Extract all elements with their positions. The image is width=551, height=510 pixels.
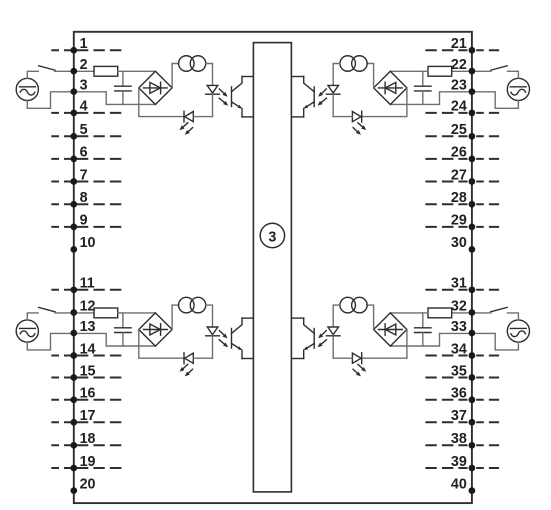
svg-text:7: 7 — [80, 167, 88, 183]
ch2 bridge rectifier — [374, 71, 407, 104]
pin 5 junction dot — [70, 133, 77, 140]
input channel block top-left — [16, 56, 253, 135]
svg-text:14: 14 — [80, 341, 96, 357]
ch1 AC source — [16, 78, 38, 100]
pin 18 junction dot — [70, 442, 77, 449]
pin 24 junction dot — [469, 110, 476, 117]
pin 26 junction dot — [469, 156, 476, 163]
pin 7 junction dot — [70, 178, 77, 185]
pin 37 junction dot — [469, 419, 476, 426]
ch3 wire switch to pin — [55, 312, 74, 314]
ch2 current source — [340, 56, 367, 72]
svg-text:22: 22 — [451, 57, 467, 73]
ch2 wire bridge to current source — [367, 64, 374, 88]
pin 2 junction dot — [70, 68, 77, 75]
svg-text:5: 5 — [80, 122, 88, 138]
pin 25 dashed line — [425, 135, 499, 137]
pin 6 dashed line — [51, 158, 121, 160]
ch2 wire resistor to bridge — [390, 70, 428, 72]
ch1 resistor — [94, 66, 118, 76]
pin 12 junction dot — [70, 309, 77, 316]
ch1 wire source to lower pin — [27, 92, 74, 109]
ch3 emitter wire — [242, 358, 254, 360]
pin 16 dashed line — [51, 399, 121, 401]
ch4 wire source to switch — [508, 313, 519, 320]
svg-text:4: 4 — [80, 99, 88, 115]
ch1 wire source to switch — [27, 71, 38, 78]
pin 18 dashed line — [51, 444, 121, 446]
pin 35 dashed line — [425, 377, 499, 379]
pin 39 junction dot — [469, 465, 476, 472]
pin 13 junction dot — [70, 330, 77, 337]
ch1 indicator LED — [184, 111, 213, 122]
ch4 current source — [340, 297, 367, 313]
pin 19 junction dot — [70, 465, 77, 472]
ch1 emitter wire — [242, 116, 254, 118]
ch4 resistor — [428, 308, 452, 318]
pin 7 dashed line — [51, 181, 121, 183]
ch1 phototransistor — [232, 77, 243, 117]
pin 3 junction dot — [70, 88, 77, 95]
svg-text:11: 11 — [80, 276, 95, 292]
ch3 wire source to lower pin — [27, 333, 74, 350]
ch4 wire bridge to current source — [367, 305, 374, 329]
svg-text:33: 33 — [451, 319, 467, 335]
pin 29 junction dot — [469, 224, 476, 231]
ch2 AC source — [507, 78, 529, 100]
ch2 capacitor — [415, 71, 431, 104]
svg-text:40: 40 — [451, 476, 467, 492]
ch2 wire lower pin to bridge — [390, 92, 472, 105]
pin 26 dashed line — [425, 158, 499, 160]
svg-text:19: 19 — [80, 454, 96, 470]
svg-text:35: 35 — [451, 363, 467, 379]
ch3 wire current source to LED — [206, 305, 213, 327]
svg-text:20: 20 — [80, 476, 96, 492]
pin 4 dashed line — [51, 112, 121, 114]
input channel block top-right — [292, 56, 529, 135]
ch4 AC source — [507, 320, 529, 342]
ch1 current source — [179, 56, 206, 72]
ch4 light arrows — [318, 331, 327, 348]
pin 31 junction dot — [469, 286, 476, 293]
pin 5 dashed line — [51, 135, 121, 137]
pin 14 junction dot — [70, 352, 77, 359]
ch3 wire source to switch — [27, 313, 38, 320]
module boundary rectangle — [74, 32, 472, 503]
svg-text:39: 39 — [451, 454, 467, 470]
pin 28 junction dot — [469, 201, 476, 208]
pin 16 junction dot — [70, 396, 77, 403]
electronics block 3 — [253, 43, 291, 492]
ch2 resistor — [428, 66, 452, 76]
ch4 wire lower pin to bridge — [390, 333, 472, 346]
pin 21 dashed line — [425, 49, 499, 51]
pin 6 junction dot — [70, 156, 77, 163]
pin 34 dashed line — [425, 355, 499, 357]
ch3 resistor — [94, 308, 118, 318]
svg-text:9: 9 — [80, 213, 88, 229]
svg-text:1: 1 — [80, 36, 88, 52]
pin 37 dashed line — [425, 421, 499, 423]
svg-text:31: 31 — [451, 276, 467, 292]
svg-text:30: 30 — [451, 235, 467, 251]
pin 27 junction dot — [469, 178, 476, 185]
svg-text:25: 25 — [451, 122, 467, 138]
ch2 optocoupler LED — [326, 85, 340, 116]
ch1 wire resistor to bridge — [118, 70, 156, 72]
ch2 wire current source to LED — [333, 64, 340, 86]
pin 10 junction dot — [70, 246, 77, 253]
pin 40 junction dot — [469, 487, 476, 494]
ch2 collector wire — [292, 76, 304, 78]
pin 29 dashed line — [425, 226, 499, 228]
svg-text:38: 38 — [451, 431, 467, 447]
svg-text:3: 3 — [268, 229, 276, 245]
ch4 indicator LED light arrows — [353, 364, 366, 376]
ch3 current source — [179, 297, 206, 313]
pin 32 junction dot — [469, 309, 476, 316]
ch4 bridge rectifier — [374, 313, 407, 346]
pin 9 junction dot — [70, 224, 77, 231]
ch4 wire bridge to indicator LED — [362, 330, 407, 359]
ch3 phototransistor — [232, 318, 243, 358]
ch2 indicator LED light arrows — [353, 123, 366, 135]
svg-text:10: 10 — [80, 235, 96, 251]
ch1 light arrows — [219, 89, 228, 106]
ch4 wire resistor to bridge — [390, 312, 428, 314]
ch1 wire bridge to indicator LED — [139, 88, 184, 117]
svg-text:27: 27 — [451, 167, 467, 183]
ch4 optocoupler LED — [326, 327, 340, 358]
ch1 capacitor — [115, 71, 131, 104]
pin 8 junction dot — [70, 201, 77, 208]
pin 21 junction dot — [469, 47, 476, 54]
ch4 indicator LED — [333, 353, 362, 364]
circled label 3 — [260, 223, 284, 247]
ch3 optocoupler LED — [206, 327, 220, 358]
ch2 light arrows — [318, 89, 327, 106]
ch3 indicator LED — [184, 353, 213, 364]
pin 15 junction dot — [70, 374, 77, 381]
ch4 collector wire — [292, 317, 304, 319]
svg-text:24: 24 — [451, 99, 467, 115]
ch1 indicator LED light arrows — [180, 123, 193, 135]
ch3 wire resistor to bridge — [118, 312, 156, 314]
svg-text:2: 2 — [80, 57, 88, 73]
ch1 optocoupler LED — [206, 85, 220, 116]
pin 14 dashed line — [51, 355, 121, 357]
pin 9 dashed line — [51, 226, 121, 228]
svg-text:12: 12 — [80, 298, 96, 314]
svg-text:34: 34 — [451, 341, 467, 357]
ch3 collector wire — [242, 317, 254, 319]
ch4 capacitor — [415, 313, 431, 346]
pin 17 dashed line — [51, 421, 121, 423]
pin 8 dashed line — [51, 203, 121, 205]
pin 17 junction dot — [70, 419, 77, 426]
ch4 phototransistor — [304, 318, 315, 358]
pin 25 junction dot — [469, 133, 476, 140]
pin 31 dashed line — [425, 289, 499, 291]
pin 35 junction dot — [469, 374, 476, 381]
ch2 wire pin to resistor — [452, 70, 472, 72]
svg-text:23: 23 — [451, 77, 467, 93]
pin 15 dashed line — [51, 377, 121, 379]
pin 39 dashed line — [425, 467, 499, 469]
pin 11 dashed line — [51, 289, 121, 291]
input channel block bottom-right — [292, 297, 529, 376]
ch3 wire pin to resistor — [74, 312, 94, 314]
svg-text:29: 29 — [451, 213, 467, 229]
pin 38 dashed line — [425, 444, 499, 446]
ch3 capacitor — [115, 313, 131, 346]
svg-text:15: 15 — [80, 363, 96, 379]
pin 1 junction dot — [70, 47, 77, 54]
svg-text:18: 18 — [80, 431, 96, 447]
ch4 wire switch to pin — [472, 312, 491, 314]
ch3 wire lower pin to bridge — [74, 333, 156, 346]
ch1 wire bridge to current source — [172, 64, 179, 88]
ch4 wire pin to resistor — [452, 312, 472, 314]
ch3 bridge rectifier — [139, 313, 172, 346]
svg-text:6: 6 — [80, 145, 88, 161]
ch3 AC source — [16, 320, 38, 342]
ch2 switch (NO contact) — [491, 66, 507, 70]
pin 28 dashed line — [425, 203, 499, 205]
ch2 wire source to switch — [508, 71, 519, 78]
ch4 emitter wire — [292, 358, 304, 360]
pin 33 junction dot — [469, 330, 476, 337]
ch2 wire bridge to indicator LED — [362, 88, 407, 117]
pin 36 dashed line — [425, 399, 499, 401]
ch2 indicator LED — [333, 111, 362, 122]
ch2 wire source to lower pin — [472, 92, 519, 109]
pin 38 junction dot — [469, 442, 476, 449]
pin 27 dashed line — [425, 181, 499, 183]
pin 4 junction dot — [70, 110, 77, 117]
svg-text:21: 21 — [451, 36, 467, 52]
pin 23 junction dot — [469, 88, 476, 95]
svg-text:8: 8 — [80, 190, 88, 206]
svg-text:36: 36 — [451, 386, 467, 402]
pin 34 junction dot — [469, 352, 476, 359]
svg-text:13: 13 — [80, 319, 96, 335]
pin 30 junction dot — [469, 246, 476, 253]
pin 1 dashed line — [51, 49, 121, 51]
ch3 wire bridge to indicator LED — [139, 330, 184, 359]
ch3 light arrows — [219, 331, 228, 348]
ch3 indicator LED light arrows — [180, 364, 193, 376]
svg-text:17: 17 — [80, 408, 96, 424]
ch1 collector wire — [242, 76, 254, 78]
svg-text:26: 26 — [451, 145, 467, 161]
ch1 switch (NO contact) — [39, 66, 55, 70]
pin 22 junction dot — [469, 68, 476, 75]
ch1 wire switch to pin — [55, 70, 74, 72]
ch3 switch (NO contact) — [39, 307, 55, 311]
ch1 bridge rectifier — [139, 71, 172, 104]
ch2 emitter wire — [292, 116, 304, 118]
ch1 wire pin to resistor — [74, 70, 94, 72]
ch4 wire current source to LED — [333, 305, 340, 327]
pin 24 dashed line — [425, 112, 499, 114]
pin 36 junction dot — [469, 396, 476, 403]
ch1 wire lower pin to bridge — [74, 92, 156, 105]
svg-text:32: 32 — [451, 298, 467, 314]
ch4 wire source to lower pin — [472, 333, 519, 350]
ch3 wire bridge to current source — [172, 305, 179, 329]
pin 11 junction dot — [70, 286, 77, 293]
ch1 wire current source to LED — [206, 64, 213, 86]
ch2 wire switch to pin — [472, 70, 491, 72]
pin 20 junction dot — [70, 487, 77, 494]
svg-text:3: 3 — [80, 77, 88, 93]
svg-text:16: 16 — [80, 386, 96, 402]
pin 19 dashed line — [51, 467, 121, 469]
svg-text:28: 28 — [451, 190, 467, 206]
svg-text:37: 37 — [451, 408, 467, 424]
ch4 switch (NO contact) — [491, 307, 507, 311]
input channel block bottom-left — [16, 297, 253, 376]
ch2 phototransistor — [304, 77, 315, 117]
